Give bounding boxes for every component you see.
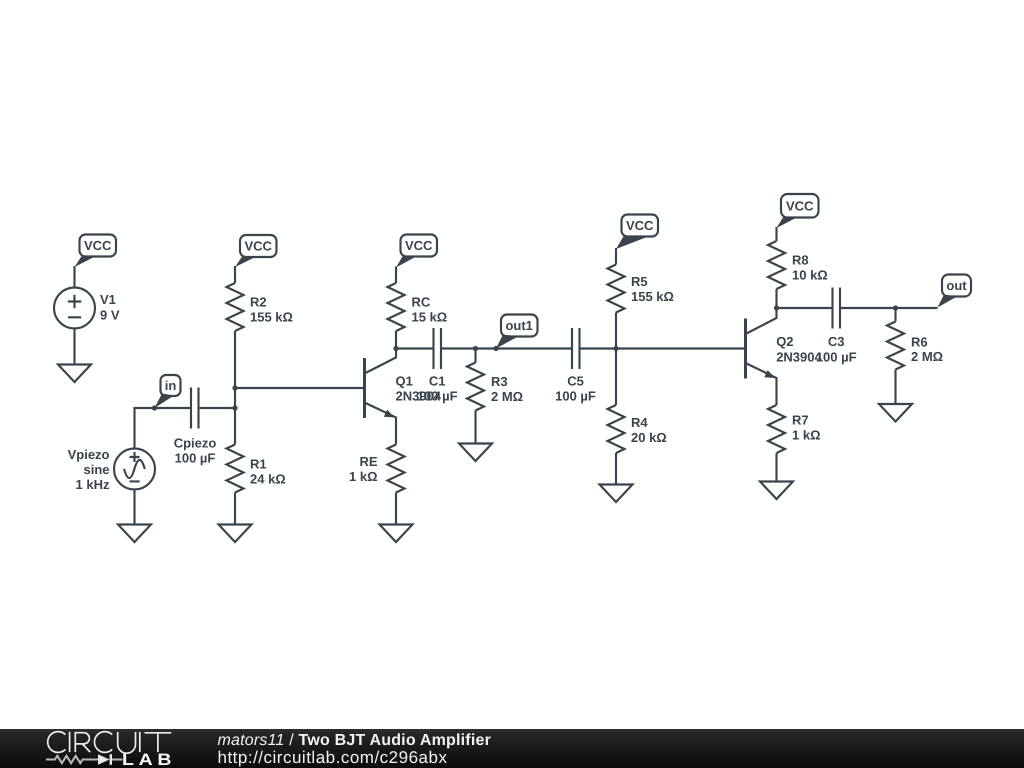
svg-text:R5: R5 bbox=[631, 274, 648, 289]
power flag VCC (R5) bbox=[616, 215, 658, 250]
resistor RC 15 k bbox=[388, 283, 448, 331]
wire bbox=[395, 267, 397, 284]
wire bbox=[474, 411, 476, 444]
svg-text:24 kΩ: 24 kΩ bbox=[250, 472, 286, 487]
svg-text:R3: R3 bbox=[491, 374, 508, 389]
power flag VCC (V1) bbox=[75, 235, 117, 268]
resistor RE 1 k bbox=[349, 445, 405, 493]
svg-text:out: out bbox=[946, 278, 967, 293]
ground (R1) bbox=[219, 525, 252, 543]
wire bbox=[73, 329, 75, 365]
wire bbox=[395, 331, 397, 349]
wire bbox=[396, 347, 434, 349]
wire bbox=[441, 347, 572, 349]
ground (Vpiezo) bbox=[118, 525, 151, 543]
power flag VCC (R8) bbox=[777, 194, 819, 228]
svg-text:100 µF: 100 µF bbox=[417, 389, 458, 404]
svg-text:1 kΩ: 1 kΩ bbox=[349, 469, 378, 484]
logo CIRCUIT bbox=[48, 732, 172, 754]
svg-text:1 kHz: 1 kHz bbox=[76, 477, 110, 492]
node out1 bbox=[493, 346, 498, 351]
node in bbox=[152, 405, 157, 410]
svg-text:R4: R4 bbox=[631, 415, 648, 430]
ground (R6) bbox=[879, 404, 912, 422]
node collector Q2 bbox=[774, 305, 779, 310]
wire bbox=[894, 308, 896, 322]
svg-text:2 MΩ: 2 MΩ bbox=[491, 389, 523, 404]
ground (RE) bbox=[380, 525, 413, 543]
svg-text:R6: R6 bbox=[911, 335, 928, 350]
svg-text:Vpiezo: Vpiezo bbox=[68, 447, 110, 462]
wire bbox=[580, 347, 746, 349]
svg-text:VCC: VCC bbox=[786, 199, 814, 214]
wire bbox=[474, 349, 476, 363]
ground (V1) bbox=[58, 365, 91, 383]
capacitor C1 100 uF bbox=[417, 328, 458, 404]
resistor R7 1 k bbox=[768, 405, 821, 453]
svg-text:VCC: VCC bbox=[405, 238, 433, 253]
svg-text:RE: RE bbox=[359, 454, 377, 469]
wire bbox=[199, 407, 236, 409]
node base Q1 junction bbox=[232, 385, 237, 390]
svg-text:R7: R7 bbox=[792, 413, 809, 428]
svg-text:out1: out1 bbox=[505, 318, 532, 333]
footer bar bbox=[0, 729, 1024, 768]
voltage source Vpiezo sine 1 kHz bbox=[68, 447, 155, 492]
svg-text:mators11 / Two BJT Audio Ampli: mators11 / Two BJT Audio Amplifier bbox=[218, 732, 492, 749]
svg-text:VCC: VCC bbox=[626, 218, 654, 233]
svg-text:1 kΩ: 1 kΩ bbox=[792, 428, 821, 443]
wire bbox=[234, 331, 236, 445]
resistor R8 10 k bbox=[768, 241, 828, 289]
svg-text:RC: RC bbox=[412, 295, 431, 310]
capacitor C3 100 uF bbox=[816, 288, 857, 365]
wire bbox=[840, 307, 938, 309]
svg-text:100 µF: 100 µF bbox=[555, 389, 596, 404]
svg-text:http://circuitlab.com/c296abx: http://circuitlab.com/c296abx bbox=[218, 748, 448, 767]
wire bbox=[777, 307, 833, 309]
power flag VCC (RC) bbox=[396, 235, 437, 268]
resistor R3 2 M bbox=[467, 363, 523, 411]
transistor Q1 2N3904 bbox=[365, 349, 442, 445]
wire bbox=[615, 313, 617, 349]
wire bbox=[234, 266, 236, 283]
svg-text:15 kΩ: 15 kΩ bbox=[412, 310, 448, 325]
wire bbox=[135, 408, 192, 449]
node Cpiezo junction bbox=[232, 405, 237, 410]
net flag in bbox=[155, 375, 181, 408]
wire bbox=[775, 453, 777, 482]
resistor R2 155 k bbox=[227, 283, 293, 331]
svg-text:C3: C3 bbox=[828, 334, 845, 349]
voltage source V1 9 V bbox=[54, 288, 120, 329]
wire bbox=[395, 493, 397, 525]
wire bbox=[234, 493, 236, 525]
wire bbox=[73, 266, 75, 288]
svg-text:C1: C1 bbox=[429, 374, 446, 389]
wire bbox=[775, 289, 777, 308]
capacitor Cpiezo 100 uF bbox=[174, 388, 217, 466]
power flag VCC (R2) bbox=[235, 235, 277, 267]
wire bbox=[894, 370, 896, 405]
svg-text:100 µF: 100 µF bbox=[816, 350, 857, 365]
resistor R4 20 k bbox=[608, 405, 667, 453]
svg-text:9 V: 9 V bbox=[100, 308, 120, 323]
net flag out1 bbox=[496, 315, 538, 349]
ground (R3) bbox=[459, 444, 492, 462]
svg-text:V1: V1 bbox=[100, 292, 116, 307]
svg-text:100 µF: 100 µF bbox=[175, 451, 216, 466]
svg-text:20 kΩ: 20 kΩ bbox=[631, 430, 667, 445]
logo resistor-diode wire bbox=[46, 754, 123, 765]
wire bbox=[235, 387, 365, 389]
wire bbox=[615, 453, 617, 485]
svg-text:Q1: Q1 bbox=[396, 374, 413, 389]
wire bbox=[133, 490, 135, 525]
capacitor C5 100 uF bbox=[555, 328, 596, 404]
svg-text:VCC: VCC bbox=[84, 238, 112, 253]
node R5/R4 junction bbox=[613, 346, 618, 351]
ground (R4) bbox=[600, 485, 633, 503]
svg-text:C5: C5 bbox=[567, 374, 584, 389]
svg-text:Cpiezo: Cpiezo bbox=[174, 436, 217, 451]
svg-text:R8: R8 bbox=[792, 253, 809, 268]
svg-text:VCC: VCC bbox=[244, 239, 272, 254]
svg-text:in: in bbox=[165, 378, 177, 393]
svg-text:155 kΩ: 155 kΩ bbox=[250, 310, 293, 325]
node R6 junction bbox=[893, 305, 898, 310]
net flag out bbox=[938, 275, 972, 308]
resistor R5 155 k bbox=[608, 265, 674, 313]
resistor R1 24 k bbox=[227, 445, 286, 493]
ground (R7) bbox=[760, 482, 793, 500]
wire bbox=[615, 248, 617, 265]
wire bbox=[615, 349, 617, 406]
svg-text:10 kΩ: 10 kΩ bbox=[792, 268, 828, 283]
transistor Q2 2N3904 bbox=[746, 308, 823, 405]
svg-text:sine: sine bbox=[83, 462, 109, 477]
svg-text:155 kΩ: 155 kΩ bbox=[631, 289, 674, 304]
svg-text:R1: R1 bbox=[250, 457, 267, 472]
node R3 junction bbox=[473, 346, 478, 351]
resistor R6 2 M bbox=[887, 322, 943, 370]
svg-text:LAB: LAB bbox=[122, 751, 176, 768]
svg-text:Q2: Q2 bbox=[776, 334, 793, 349]
svg-text:R2: R2 bbox=[250, 295, 267, 310]
wire bbox=[775, 227, 777, 241]
svg-text:2 MΩ: 2 MΩ bbox=[911, 349, 943, 364]
node collector Q1 bbox=[393, 346, 398, 351]
